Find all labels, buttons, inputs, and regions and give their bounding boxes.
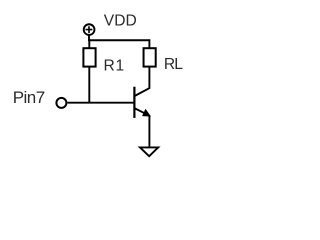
wire top rail — [88, 39, 149, 41]
wire base — [67, 102, 134, 104]
svg-text:Pin7: Pin7 — [13, 88, 45, 107]
wire collector — [148, 67, 150, 89]
wire rail to R1 — [88, 39, 90, 48]
wire rail to RL — [148, 39, 150, 48]
svg-text:R1: R1 — [104, 58, 126, 75]
resistor R1 — [83, 48, 95, 66]
wire emitter — [148, 116, 150, 148]
wire VDD stub — [88, 35, 90, 40]
svg-text:VDD: VDD — [104, 13, 137, 30]
wire R1 bottom — [88, 67, 90, 103]
svg-text:RL: RL — [164, 56, 183, 73]
ground — [140, 147, 158, 156]
terminal Pin7 — [56, 98, 66, 108]
power VDD (circle with plus) — [84, 24, 95, 35]
transistor Q1 — [134, 87, 149, 118]
resistor RL — [144, 48, 156, 66]
